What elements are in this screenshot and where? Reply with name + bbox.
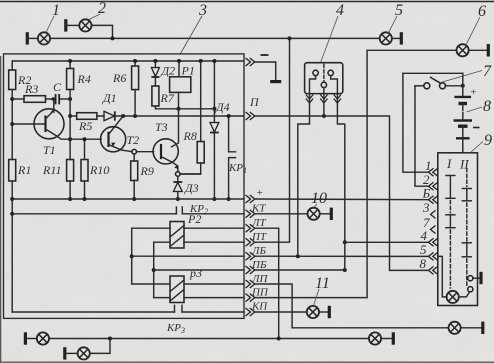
exit arrow PT row <box>246 238 255 246</box>
KP3 connector tick right <box>181 305 183 312</box>
lamp 2 <box>79 19 91 31</box>
node P row / R6 <box>133 114 137 118</box>
block9 row7 arrow <box>431 226 436 234</box>
capacitor C <box>56 94 60 104</box>
DT row from P2 <box>184 227 244 229</box>
KP1 connector wire upper <box>229 116 236 152</box>
plus bus inside box <box>12 198 244 200</box>
lamp 11 <box>307 306 319 318</box>
wire T2 ring to T3 base <box>137 151 154 153</box>
wire T3 ring to D3 <box>177 176 179 182</box>
node rail/KT row <box>10 212 14 216</box>
lamp 6 terminal bar <box>487 44 490 56</box>
block9 wire circles to terminal <box>473 277 480 279</box>
KT row wire to lamp 10 <box>255 213 307 215</box>
P2 left bottom wire <box>154 241 170 243</box>
node R4col/R5 row <box>68 114 72 118</box>
node R10 plus bus <box>83 197 87 201</box>
LB row inside box <box>132 255 244 257</box>
lamp 5 lead <box>392 37 401 39</box>
switch 7 right contact circle <box>440 83 446 89</box>
comp4 right lead arrow <box>334 95 341 104</box>
column I mid bar <box>446 214 455 216</box>
node R6 top bus <box>133 59 137 63</box>
exit arrow KP row <box>246 308 255 316</box>
comp4 internal lead left <box>310 76 316 94</box>
node R4col/plus bus <box>68 197 72 201</box>
node R8 top bus <box>199 59 203 63</box>
node V1 LB row <box>130 254 134 258</box>
column I dashed segment 2 <box>449 230 451 288</box>
node KP1 / P row <box>227 114 231 118</box>
V2 vertical (P2/P3 left link) <box>153 242 155 297</box>
LP row wire down and to rear lamp <box>255 284 448 328</box>
resistor R2 <box>9 70 16 90</box>
node R4 top bus <box>68 59 72 63</box>
bottom left lamp <box>37 332 49 344</box>
node P row / T2 collector <box>121 114 125 118</box>
lamp 1 <box>38 32 50 44</box>
R8 bottom lead <box>180 163 201 174</box>
block9 contact circle upper <box>468 276 473 281</box>
comp4 contact circle center <box>321 82 326 87</box>
T2 base bar <box>107 132 109 147</box>
T2 emitter ring node <box>132 149 137 154</box>
PB row inside box <box>154 269 244 271</box>
KP3 connector tick left <box>174 305 176 312</box>
PP row from P3 <box>184 297 244 299</box>
node D4 top bus <box>212 59 216 63</box>
node PB / comp4 right leg <box>343 268 347 272</box>
resistor R7 <box>152 86 159 106</box>
T1 collector lead <box>46 129 102 139</box>
T1 base bar <box>44 116 46 133</box>
wire C to R4 column <box>59 98 70 100</box>
leader line label 9 <box>471 142 484 153</box>
resistor R11 <box>67 160 74 182</box>
node bottom pair junction <box>108 337 112 341</box>
LP row from P3 <box>184 283 244 285</box>
node comp4 center / P row <box>322 114 326 118</box>
transistor T3 <box>153 139 178 164</box>
paper noise overlay <box>0 0 1 1</box>
block9 row5 arrow <box>429 252 438 260</box>
lamp 1 lead wire <box>27 37 37 39</box>
lamp 6 <box>457 44 469 56</box>
node R4col/T1-T2 row <box>68 137 72 141</box>
battery dashed link <box>462 108 464 115</box>
comp4 internal lead right <box>331 76 338 94</box>
R6 column wires <box>134 61 136 116</box>
exit arrow PP row <box>246 294 255 302</box>
block9 internal row5 wire <box>438 256 447 297</box>
resistor R8 <box>197 142 204 164</box>
KP row left segment <box>12 311 174 313</box>
block9 lamp right lead <box>459 292 470 297</box>
row 4 feed wire <box>345 241 429 243</box>
diode D1 <box>104 111 115 120</box>
exit arrow LB row <box>246 252 255 260</box>
block 9 enclosure <box>438 153 478 306</box>
R4 column wire <box>69 61 71 199</box>
rear lamp right (on LP line) <box>449 322 461 334</box>
bottom mid lamp terminal bar <box>392 332 395 344</box>
leader line label 8 <box>467 107 483 112</box>
R8 top lead to bus <box>200 61 202 142</box>
node KP1 / plus bus <box>227 197 231 201</box>
lamp 11 lead <box>319 311 329 313</box>
leader line label 10 <box>314 204 317 207</box>
P net wire inside box (D1 to edge) <box>115 115 244 117</box>
KP2 connector tick left <box>175 207 177 214</box>
wire riser to block9 row1 <box>403 73 429 172</box>
column II dashed segment 1 <box>466 169 468 187</box>
switch wire right contact to battery column <box>445 85 463 87</box>
minus label at ground <box>261 54 269 56</box>
exit arrow plus row <box>246 195 255 203</box>
column II dashed segment 2 <box>466 203 468 241</box>
column II bar 1 <box>462 188 471 190</box>
ground bar <box>270 80 281 83</box>
R7 bottom wire to node <box>155 106 178 109</box>
comp4 left lead arrow <box>306 95 313 104</box>
column I segment 1 bottom bar <box>446 197 455 199</box>
R5 wires <box>70 115 104 117</box>
P2 left top wire <box>132 227 170 229</box>
switch wire left contact to riser <box>415 85 424 87</box>
column I top bar <box>446 175 455 177</box>
component 4 body <box>305 63 343 94</box>
bottom left lamp terminal bar <box>24 332 27 344</box>
wire R3 to C <box>46 98 56 100</box>
D4 column wire <box>213 61 215 199</box>
node DT riser / bottom wire <box>277 337 281 341</box>
switch 7 left contact circle <box>424 83 430 89</box>
leader line label 3 <box>181 16 203 54</box>
P3 coil diagonal 2 <box>170 290 184 302</box>
block9 right terminal bar <box>479 272 482 284</box>
P3 coil diagonal 1 <box>170 280 184 292</box>
node R10 top <box>83 137 87 141</box>
V1 vertical (P2/P3 left link) <box>131 228 133 284</box>
leader line label 1 <box>46 16 54 33</box>
D3 bottom lead <box>177 192 179 200</box>
node comp4 right leg / row4 feed <box>343 240 347 244</box>
battery 8 cell1 short plate <box>459 102 468 105</box>
resistor R3 <box>24 96 46 103</box>
battery 8 cell2 short plate <box>458 124 468 127</box>
comp4 contact circle right <box>328 70 333 75</box>
PB row wire to comp4 right leg <box>255 269 345 271</box>
column II bar 2 <box>462 242 471 244</box>
exit arrow DT row <box>246 224 255 232</box>
node rail/R3 <box>10 97 14 101</box>
D2 wires <box>154 61 156 86</box>
leader line label 2 <box>89 14 100 20</box>
D4 cathode bar <box>210 132 219 134</box>
switch 7 top wire <box>403 72 463 74</box>
battery 8 cell2 long plate <box>454 119 473 121</box>
T3 emitter ring node <box>176 172 181 177</box>
wire R7row to D4 column <box>179 108 215 110</box>
frame bottom border <box>0 361 494 363</box>
block9 row8 arrow <box>429 266 438 274</box>
plus row wire to block 9 <box>255 198 429 201</box>
block9 row4 arrow <box>429 238 438 246</box>
P1 top lead <box>178 61 180 77</box>
unit 3 enclosure box <box>4 54 245 319</box>
top bus exit arrow <box>246 58 255 66</box>
lamp 10 lead <box>320 213 331 215</box>
comp4 right leg wire <box>337 95 344 271</box>
junction lamp2/bus <box>111 36 115 40</box>
comp4 center dashed line <box>323 65 325 83</box>
switch 7 lever blade <box>430 77 441 83</box>
column I solid segment 2 <box>449 215 451 228</box>
T2 emitter arrowhead <box>111 143 115 147</box>
R10 leads <box>84 139 86 199</box>
comp4 center leg wire <box>323 95 325 117</box>
diode D3 triangle <box>173 182 182 191</box>
KP1 connector wire lower <box>229 158 236 199</box>
KT row right segment <box>182 213 244 215</box>
column II segment 2 bottom bar <box>462 256 471 258</box>
battery 8 cell1 long plate <box>454 96 471 98</box>
lamp 2 terminal bar <box>64 19 67 31</box>
bottom second lamp wire to junction <box>90 339 110 354</box>
node LB / comp4 left leg <box>296 254 300 258</box>
T1 emitter arrowhead <box>51 109 56 113</box>
bottom left lamp lead <box>25 338 36 340</box>
exit arrow PB row <box>246 266 255 274</box>
left rail <box>11 61 13 312</box>
wire battery to block9 <box>462 138 464 153</box>
node P1 top bus <box>177 59 181 63</box>
resistor R1 <box>9 160 16 182</box>
diode D2 <box>151 68 159 77</box>
wire R3 row <box>12 98 24 100</box>
P3 left top wire <box>132 283 170 285</box>
PP row wire rising to lamp 6 bus <box>255 50 367 297</box>
wire to ground outside box <box>255 62 276 81</box>
relay P1 <box>170 77 191 93</box>
node D2 top bus <box>153 59 157 63</box>
block9 row1 arrow <box>429 168 438 176</box>
bottom wire (DT net) <box>49 338 368 340</box>
frame left border <box>0 56 2 362</box>
lamp 6 lead <box>469 49 488 51</box>
block9 row3 arrow <box>431 210 436 218</box>
P3 left bottom wire <box>154 297 170 299</box>
wire T3 ring to R8 <box>180 173 201 175</box>
lamp 2 lead wire <box>66 24 79 26</box>
lamp 5 terminal bar <box>400 32 403 44</box>
LB row wire to block 9 row 5 <box>255 255 429 257</box>
DT row wire turning down to bottom lamps <box>255 228 279 338</box>
relay P2 <box>170 222 184 249</box>
battery cell1 stem <box>462 104 464 107</box>
lamp 6 feed bus <box>367 49 456 51</box>
comp4 center lead arrow <box>320 95 327 104</box>
column II solid segment 2 <box>466 243 468 257</box>
transistor T1 <box>34 109 64 139</box>
wire riser to block9 row2 <box>415 86 429 186</box>
column II solid segment 1 <box>466 189 468 201</box>
column II segment 1 bottom bar <box>462 200 471 202</box>
junction top bus / PT riser <box>288 36 292 40</box>
node R9 plus bus <box>132 197 136 201</box>
lamp 10 <box>308 208 320 220</box>
diode D4 <box>210 123 219 133</box>
node D4 R7row <box>212 107 216 111</box>
bottom mid lamp (on DT net) <box>369 332 381 344</box>
comp4 left leg wire <box>298 95 310 257</box>
block9 contact circle lower <box>468 287 473 292</box>
column I solid segment 1 <box>449 176 451 199</box>
top bus wire <box>50 37 379 39</box>
frame top border <box>0 1 494 3</box>
comp4 contact circle left <box>313 70 318 75</box>
block9 row2 arrow <box>429 182 438 190</box>
inner top bus <box>12 60 244 62</box>
exit arrow KT row <box>246 210 255 218</box>
rear lamp right lead <box>461 327 483 329</box>
diode D3 (zener) bar <box>173 181 182 183</box>
block9 pilot lamp <box>447 291 459 303</box>
exit arrow LP row <box>246 280 255 288</box>
relay P3 <box>170 276 184 303</box>
block9 rowB arrow <box>429 196 438 204</box>
battery minus label <box>473 127 480 129</box>
R9 leads <box>133 154 135 199</box>
KP2 connector tick right <box>181 207 183 214</box>
D2 cathode bar <box>151 76 159 78</box>
wire lamp2 to top bus <box>92 25 113 38</box>
KP row right segment <box>182 311 244 313</box>
resistor R9 <box>131 161 138 181</box>
column I segment 2 bottom bar <box>446 227 455 229</box>
PT row from P2 <box>184 241 244 243</box>
KP row wire to lamp 11 <box>255 311 307 313</box>
T3 base bar <box>160 144 162 159</box>
node rail/T1 base <box>10 122 14 126</box>
bottom second lamp terminal bar <box>63 347 66 359</box>
transistor T2 <box>101 127 126 152</box>
T2 emitter lead with arrow <box>109 145 132 152</box>
node D3 plus bus <box>176 197 180 201</box>
KT row left segment <box>12 213 176 215</box>
node D4 plus bus <box>212 197 216 201</box>
box exit arrow top bus done above; exit arrow P row <box>246 112 255 120</box>
battery cell2 link <box>462 115 464 121</box>
P row wire outside to block9 row 8 <box>255 116 429 270</box>
D1 cathode bar <box>114 111 116 120</box>
lamp 11 terminal bar <box>328 306 331 318</box>
T3 emitter arrowhead <box>174 165 179 169</box>
T3 emitter lead with arrow <box>161 157 178 172</box>
resistor R6 <box>132 66 139 90</box>
T2 collector lead <box>109 116 124 135</box>
node switch/battery column <box>461 84 465 88</box>
P2 coil diagonal 1 <box>170 226 184 238</box>
column II dashed segment 3 <box>466 259 468 286</box>
battery top column <box>462 73 464 97</box>
bottom second lamp lead <box>65 352 78 354</box>
resistor R4 <box>67 69 74 90</box>
lamp 5 <box>380 32 392 44</box>
PT row wire rising to top bus <box>255 38 290 242</box>
lamp 1 terminal bar <box>26 32 29 44</box>
leader line label 11 <box>314 289 320 306</box>
node C row / R4 column <box>68 97 72 101</box>
node V2 PB row <box>152 268 156 272</box>
rear lamp right terminal bar <box>481 322 484 334</box>
bottom second lamp <box>78 347 90 359</box>
P2 coil diagonal 2 <box>170 235 184 247</box>
node R7/P1 junction <box>177 107 181 111</box>
battery bottom terminal bar <box>456 137 470 139</box>
leader line label 7 <box>442 71 483 83</box>
leader line label 5 <box>389 16 398 33</box>
node C row / T1 collector riser <box>51 97 55 101</box>
T1 emitter with arrow <box>46 99 54 119</box>
lamp 10 terminal bar <box>330 208 333 220</box>
column I dashed segment 1 <box>449 201 451 213</box>
battery bottom stem <box>462 126 464 138</box>
resistor R10 <box>81 160 88 182</box>
node rail/plus bus <box>10 197 14 201</box>
bottom mid lamp lead <box>381 338 393 340</box>
T1 base lead <box>12 123 45 125</box>
leader line label 4 <box>321 16 339 63</box>
resistor R5 <box>77 113 97 120</box>
comp4 internal lead center <box>323 88 325 94</box>
leader line label 6 <box>466 17 480 45</box>
P1 bottom lead / T3 collector column <box>172 92 179 146</box>
